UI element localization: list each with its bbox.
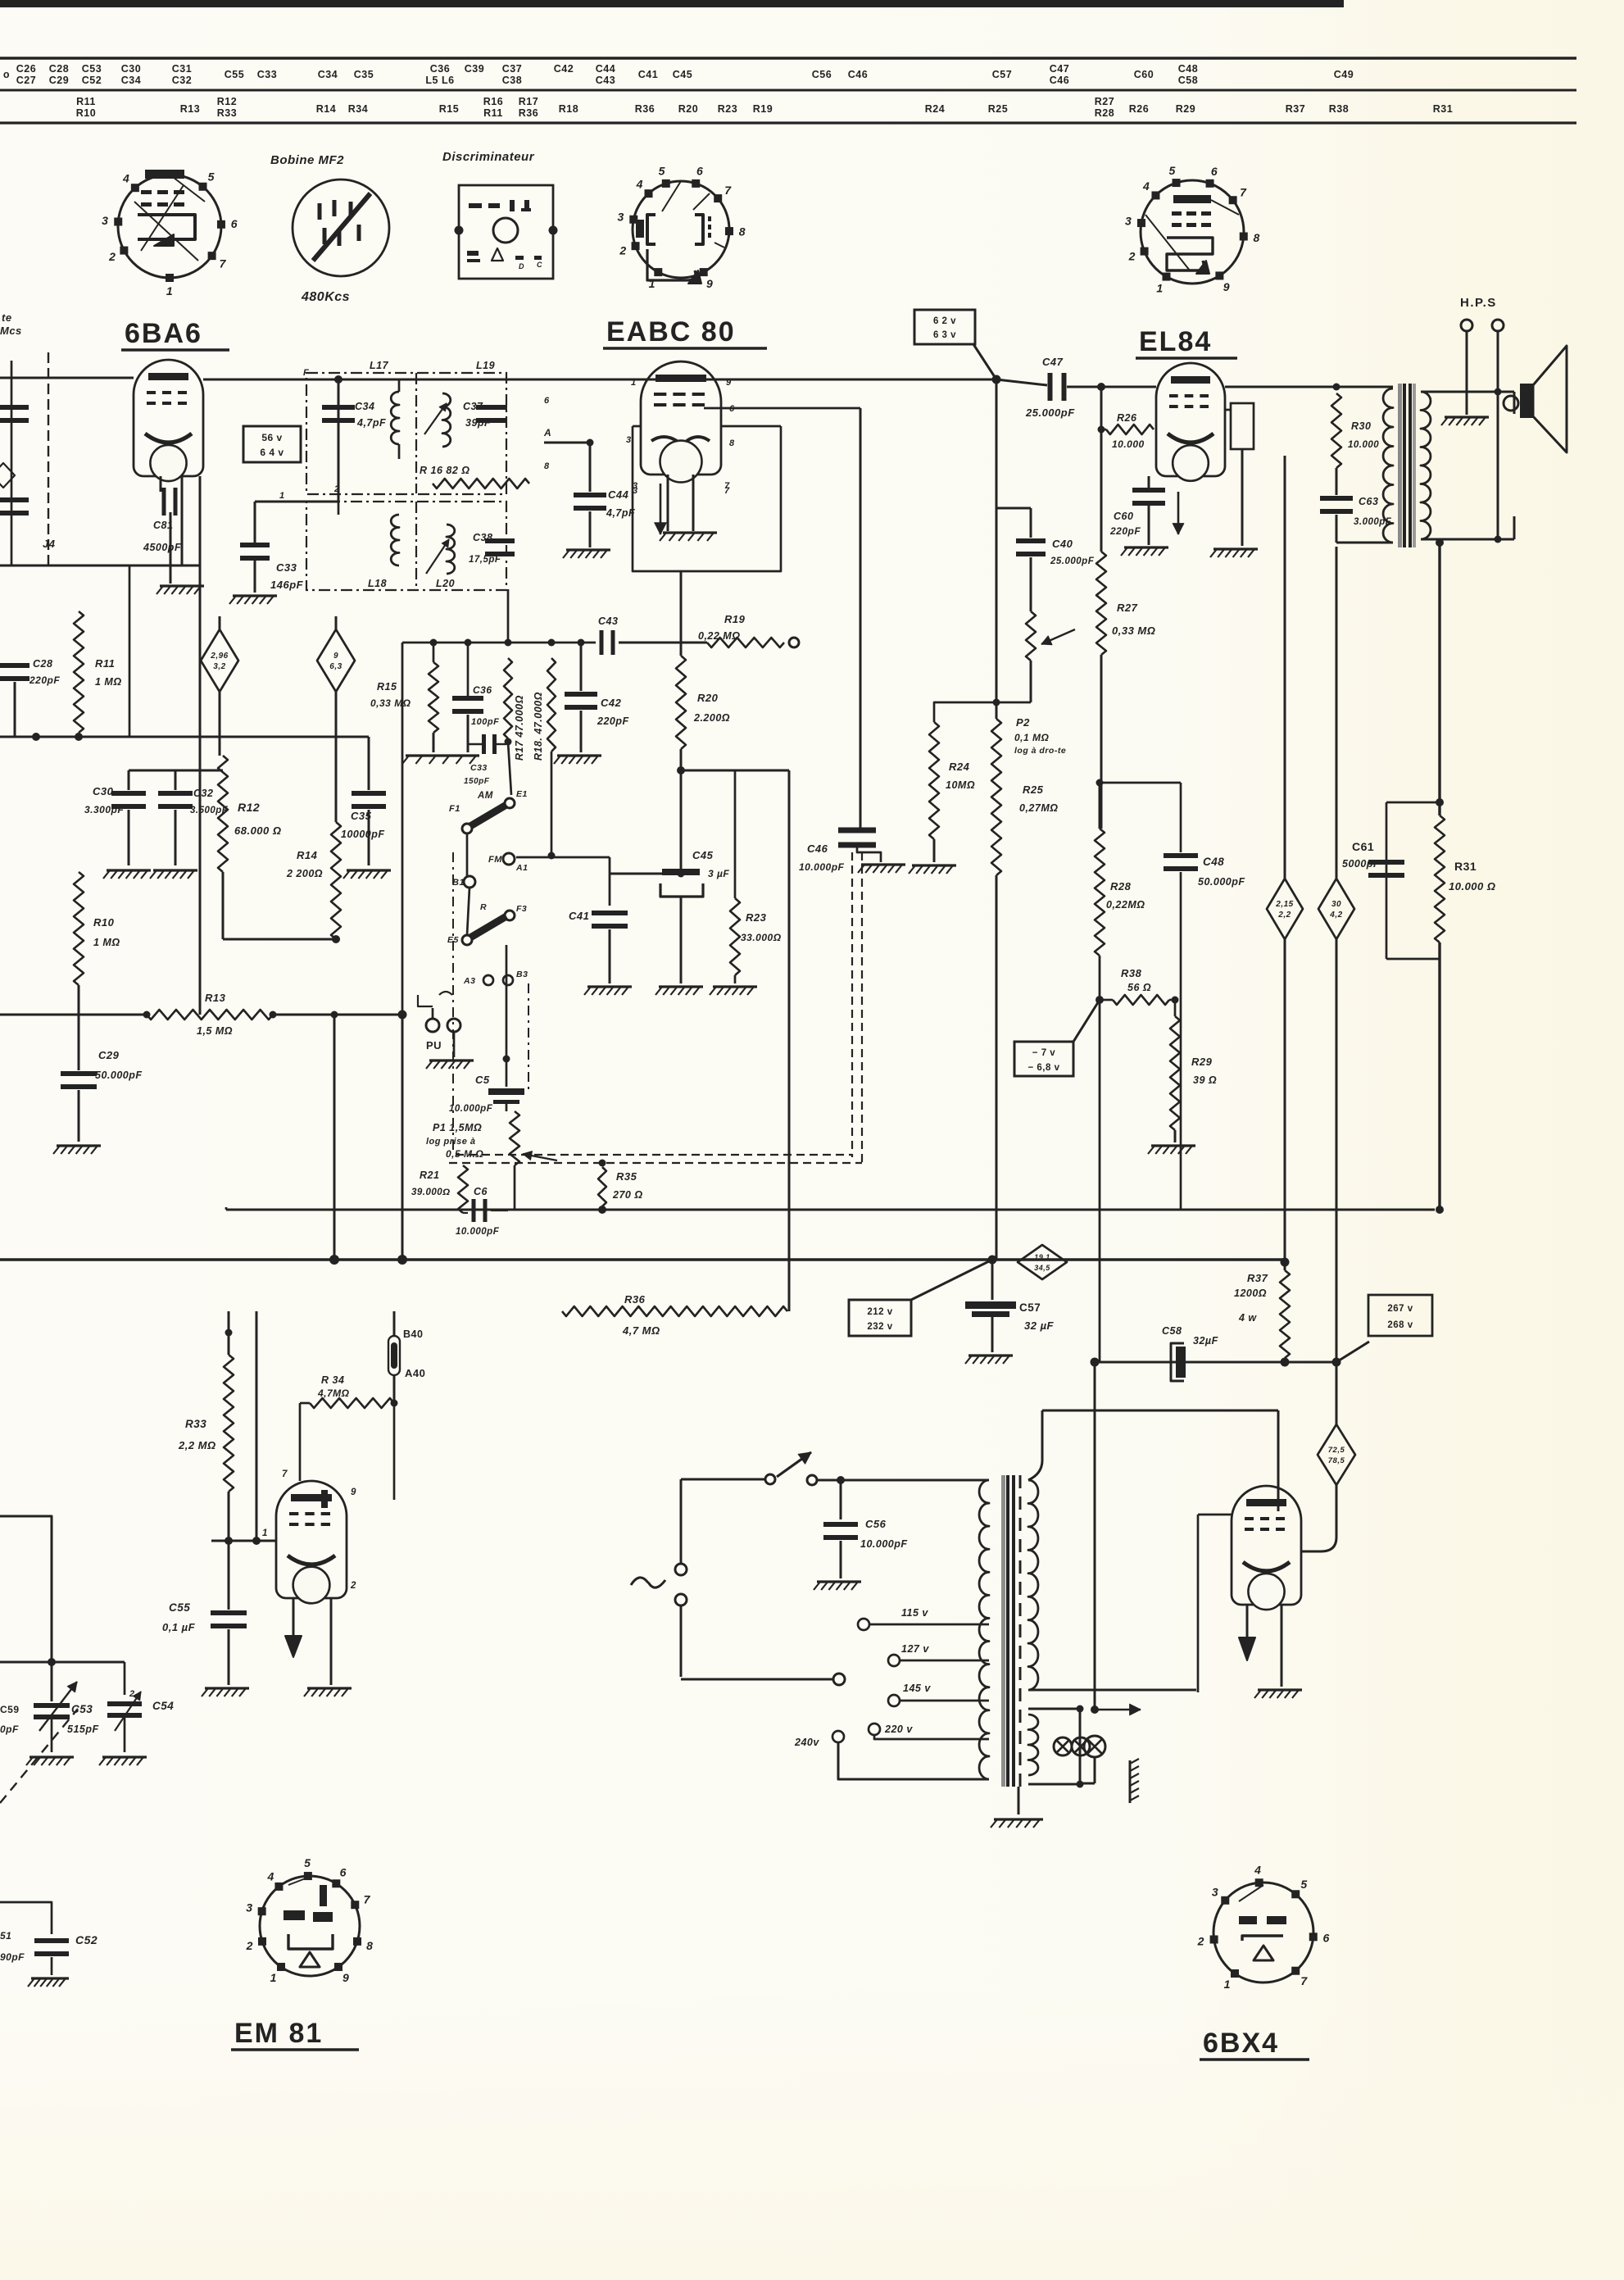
svg-text:4,7pF: 4,7pF xyxy=(606,507,635,519)
svg-text:FM: FM xyxy=(488,855,502,865)
svg-text:R36: R36 xyxy=(519,107,538,119)
svg-text:127 v: 127 v xyxy=(901,1643,929,1655)
svg-text:C28: C28 xyxy=(33,658,52,670)
svg-text:C45: C45 xyxy=(673,69,692,80)
svg-text:2: 2 xyxy=(108,250,116,263)
svg-text:R33: R33 xyxy=(217,107,237,119)
svg-text:R24: R24 xyxy=(925,103,945,115)
svg-text:A1: A1 xyxy=(515,863,528,873)
svg-text:R11: R11 xyxy=(483,107,503,119)
svg-text:C35: C35 xyxy=(354,69,374,80)
svg-text:F1: F1 xyxy=(449,804,460,814)
svg-text:39pF: 39pF xyxy=(465,417,491,429)
svg-text:4: 4 xyxy=(1142,179,1150,193)
svg-text:10.000: 10.000 xyxy=(1112,438,1145,450)
svg-text:1: 1 xyxy=(279,491,285,501)
svg-text:C5: C5 xyxy=(475,1074,490,1086)
svg-text:6: 6 xyxy=(1211,165,1218,178)
svg-text:2: 2 xyxy=(333,484,340,494)
svg-text:F3: F3 xyxy=(516,904,527,914)
svg-text:R 16 82 Ω: R 16 82 Ω xyxy=(420,465,470,476)
svg-text:C37: C37 xyxy=(502,63,522,75)
svg-text:3: 3 xyxy=(1125,214,1132,227)
svg-text:R28: R28 xyxy=(1110,880,1132,892)
svg-text:C37: C37 xyxy=(463,401,483,412)
svg-text:C55: C55 xyxy=(169,1601,190,1614)
svg-text:10.000pF: 10.000pF xyxy=(799,861,845,873)
svg-text:0,33 MΩ: 0,33 MΩ xyxy=(1112,625,1155,637)
svg-text:C36: C36 xyxy=(473,684,492,696)
svg-text:0,22MΩ: 0,22MΩ xyxy=(1106,899,1145,911)
svg-text:220pF: 220pF xyxy=(1109,525,1141,537)
svg-text:R23: R23 xyxy=(718,103,737,115)
svg-text:C45: C45 xyxy=(692,849,714,861)
svg-text:H.P.S: H.P.S xyxy=(1460,296,1497,310)
svg-text:R23: R23 xyxy=(746,911,767,924)
svg-text:R: R xyxy=(480,902,487,912)
svg-text:C57: C57 xyxy=(1019,1301,1041,1314)
svg-text:9: 9 xyxy=(333,652,338,661)
svg-text:150pF: 150pF xyxy=(464,777,490,786)
svg-text:1: 1 xyxy=(270,1971,277,1984)
svg-text:5: 5 xyxy=(304,1856,311,1869)
svg-text:72,5: 72,5 xyxy=(1328,1446,1345,1455)
svg-text:3: 3 xyxy=(617,210,624,223)
svg-text:145 v: 145 v xyxy=(903,1683,931,1694)
svg-text:3: 3 xyxy=(102,214,108,227)
svg-text:E1: E1 xyxy=(516,789,528,799)
svg-text:5: 5 xyxy=(1300,1878,1307,1891)
svg-text:480Kcs: 480Kcs xyxy=(301,290,350,304)
svg-text:267 v: 267 v xyxy=(1387,1304,1413,1314)
svg-text:Bobine MF2: Bobine MF2 xyxy=(270,153,344,167)
svg-text:AM: AM xyxy=(477,791,493,801)
svg-text:39.000Ω: 39.000Ω xyxy=(411,1188,451,1197)
svg-text:220pF: 220pF xyxy=(29,674,60,686)
svg-text:5000pF: 5000pF xyxy=(1342,858,1380,870)
svg-text:C43: C43 xyxy=(598,615,618,627)
svg-text:32 µF: 32 µF xyxy=(1024,1319,1055,1332)
svg-text:C29: C29 xyxy=(49,75,69,86)
svg-text:A: A xyxy=(543,427,551,438)
svg-text:6: 6 xyxy=(340,1866,347,1879)
svg-text:B40: B40 xyxy=(403,1328,423,1340)
svg-text:R20: R20 xyxy=(678,103,698,115)
svg-text:50.000pF: 50.000pF xyxy=(95,1070,143,1081)
svg-text:3: 3 xyxy=(1212,1886,1218,1899)
svg-text:A3: A3 xyxy=(463,976,475,986)
svg-text:R28: R28 xyxy=(1095,107,1114,119)
svg-text:C44: C44 xyxy=(596,63,615,75)
svg-text:C30: C30 xyxy=(93,785,114,797)
svg-text:R24: R24 xyxy=(949,761,970,773)
svg-text:R29: R29 xyxy=(1191,1056,1213,1068)
svg-text:4: 4 xyxy=(266,1869,274,1883)
svg-text:50.000pF: 50.000pF xyxy=(1198,876,1245,888)
svg-text:C54: C54 xyxy=(152,1700,174,1712)
svg-text:6 3 v: 6 3 v xyxy=(933,330,956,340)
svg-text:C59: C59 xyxy=(0,1704,20,1715)
svg-text:C33: C33 xyxy=(257,69,277,80)
svg-text:C34: C34 xyxy=(318,69,338,80)
svg-text:C57: C57 xyxy=(992,69,1012,80)
svg-text:6BA6: 6BA6 xyxy=(125,318,202,349)
svg-text:EABC 80: EABC 80 xyxy=(606,316,736,347)
svg-text:Mcs: Mcs xyxy=(0,325,22,337)
svg-text:2: 2 xyxy=(1128,250,1136,263)
svg-text:C60: C60 xyxy=(1134,69,1154,80)
svg-text:3,2: 3,2 xyxy=(213,662,225,671)
svg-text:R16: R16 xyxy=(483,96,503,107)
svg-text:0,33 MΩ: 0,33 MΩ xyxy=(370,697,411,709)
svg-text:C58: C58 xyxy=(1178,75,1198,86)
svg-text:R31: R31 xyxy=(1433,103,1453,115)
svg-text:2 200Ω: 2 200Ω xyxy=(286,868,323,879)
svg-text:C49: C49 xyxy=(1334,69,1354,80)
svg-text:R27: R27 xyxy=(1117,602,1138,614)
svg-text:8: 8 xyxy=(544,461,550,471)
svg-text:B3: B3 xyxy=(516,970,528,979)
svg-text:te: te xyxy=(2,311,12,324)
svg-text:R21: R21 xyxy=(420,1170,439,1181)
svg-text:1 MΩ: 1 MΩ xyxy=(95,676,122,688)
svg-text:R10: R10 xyxy=(93,916,115,929)
svg-text:R33: R33 xyxy=(185,1418,206,1430)
svg-text:68.000 Ω: 68.000 Ω xyxy=(234,824,282,837)
svg-text:P1 1,5MΩ: P1 1,5MΩ xyxy=(433,1122,482,1133)
svg-text:6: 6 xyxy=(1323,1932,1330,1945)
svg-text:2,96: 2,96 xyxy=(210,652,228,661)
svg-text:EL84: EL84 xyxy=(1139,326,1212,357)
svg-text:C: C xyxy=(537,261,542,269)
svg-text:R12: R12 xyxy=(217,96,237,107)
svg-text:4: 4 xyxy=(636,177,643,190)
svg-text:9: 9 xyxy=(342,1971,349,1984)
svg-text:R36: R36 xyxy=(635,103,655,115)
svg-text:9: 9 xyxy=(726,378,732,388)
svg-text:A40: A40 xyxy=(405,1367,425,1379)
svg-text:C42: C42 xyxy=(554,63,574,75)
svg-text:R38: R38 xyxy=(1329,103,1349,115)
svg-text:R14: R14 xyxy=(297,849,318,861)
svg-text:R25: R25 xyxy=(988,103,1008,115)
svg-text:4 w: 4 w xyxy=(1238,1312,1257,1324)
svg-text:9: 9 xyxy=(1223,280,1230,293)
svg-text:C58: C58 xyxy=(1162,1325,1182,1337)
svg-text:1 MΩ: 1 MΩ xyxy=(93,937,120,948)
svg-text:R17 47.000Ω: R17 47.000Ω xyxy=(514,695,525,761)
svg-text:R15: R15 xyxy=(439,103,459,115)
svg-text:C27: C27 xyxy=(16,75,36,86)
svg-text:L18: L18 xyxy=(368,578,387,589)
svg-text:C48: C48 xyxy=(1203,856,1224,868)
svg-text:3 µF: 3 µF xyxy=(708,868,729,879)
svg-text:6,3: 6,3 xyxy=(329,662,342,671)
svg-text:8: 8 xyxy=(366,1939,373,1952)
svg-text:o: o xyxy=(3,69,10,80)
svg-text:6 2 v: 6 2 v xyxy=(933,316,956,326)
svg-text:10MΩ: 10MΩ xyxy=(946,779,975,791)
svg-text:7: 7 xyxy=(1300,1974,1308,1987)
svg-text:4: 4 xyxy=(122,171,129,184)
svg-text:R19: R19 xyxy=(753,103,773,115)
svg-text:5: 5 xyxy=(208,170,215,183)
svg-text:C30: C30 xyxy=(121,63,141,75)
svg-text:4: 4 xyxy=(1254,1863,1261,1876)
svg-text:R11: R11 xyxy=(76,96,96,107)
svg-text:C46: C46 xyxy=(1050,75,1069,86)
svg-text:C41: C41 xyxy=(569,910,589,922)
svg-text:L17: L17 xyxy=(370,360,389,371)
svg-text:0,1 µF: 0,1 µF xyxy=(162,1621,196,1633)
svg-text:C52: C52 xyxy=(75,1933,98,1946)
svg-text:0,27MΩ: 0,27MΩ xyxy=(1019,802,1059,814)
svg-text:C40: C40 xyxy=(1052,538,1073,550)
svg-text:D: D xyxy=(519,262,524,270)
svg-text:C63: C63 xyxy=(1359,496,1378,507)
svg-text:R17: R17 xyxy=(519,96,538,107)
svg-text:C81: C81 xyxy=(153,520,173,531)
svg-text:1: 1 xyxy=(1224,1978,1231,1991)
svg-text:33.000Ω: 33.000Ω xyxy=(741,932,782,943)
svg-text:3: 3 xyxy=(246,1901,252,1914)
svg-text:− 7 v: − 7 v xyxy=(1032,1048,1056,1058)
svg-text:C34: C34 xyxy=(121,75,141,86)
svg-text:8: 8 xyxy=(739,225,746,238)
svg-text:PU: PU xyxy=(426,1039,442,1051)
svg-text:3.300pF: 3.300pF xyxy=(84,804,124,815)
svg-text:L19: L19 xyxy=(476,360,495,371)
svg-text:L20: L20 xyxy=(436,578,455,589)
svg-text:C47: C47 xyxy=(1042,356,1064,368)
svg-text:5: 5 xyxy=(1168,164,1175,177)
svg-text:R30: R30 xyxy=(1351,420,1371,432)
svg-text:C55: C55 xyxy=(225,69,244,80)
svg-text:C32: C32 xyxy=(193,788,213,799)
svg-text:39 Ω: 39 Ω xyxy=(1193,1074,1217,1086)
svg-text:C60: C60 xyxy=(1114,511,1133,522)
svg-text:268 v: 268 v xyxy=(1387,1320,1413,1330)
svg-text:7: 7 xyxy=(724,481,730,491)
svg-text:4,7pF: 4,7pF xyxy=(356,417,386,429)
svg-text:10.000: 10.000 xyxy=(1348,440,1379,450)
svg-text:C44: C44 xyxy=(608,488,629,501)
svg-text:515pF: 515pF xyxy=(67,1724,99,1735)
svg-text:30: 30 xyxy=(1331,900,1341,909)
svg-text:− 6,8 v: − 6,8 v xyxy=(1028,1063,1060,1073)
svg-text:220 v: 220 v xyxy=(884,1724,913,1735)
svg-text:9: 9 xyxy=(351,1487,356,1497)
svg-text:0,22 MΩ: 0,22 MΩ xyxy=(698,630,740,642)
svg-text:10.000pF: 10.000pF xyxy=(860,1538,908,1550)
svg-text:2,2: 2,2 xyxy=(1277,911,1291,920)
svg-text:10000pF: 10000pF xyxy=(341,829,385,840)
svg-text:4,7MΩ: 4,7MΩ xyxy=(317,1388,350,1399)
svg-text:8: 8 xyxy=(1254,231,1260,244)
svg-text:R19: R19 xyxy=(724,613,746,625)
svg-text:270 Ω: 270 Ω xyxy=(612,1189,643,1201)
svg-text:100pF: 100pF xyxy=(471,717,499,727)
svg-text:R35: R35 xyxy=(616,1170,637,1183)
svg-text:R38: R38 xyxy=(1121,967,1142,979)
svg-text:146pF: 146pF xyxy=(270,579,304,591)
svg-text:240v: 240v xyxy=(794,1737,819,1748)
svg-text:10.000pF: 10.000pF xyxy=(449,1104,493,1114)
svg-text:10.000 Ω: 10.000 Ω xyxy=(1449,880,1496,892)
svg-text:R14: R14 xyxy=(316,103,336,115)
svg-text:R34: R34 xyxy=(348,103,368,115)
svg-text:90pF: 90pF xyxy=(0,1951,25,1963)
svg-text:R36: R36 xyxy=(624,1293,646,1306)
svg-text:7: 7 xyxy=(364,1892,371,1905)
svg-text:1: 1 xyxy=(166,284,173,297)
svg-text:R20: R20 xyxy=(697,692,719,704)
svg-text:C36: C36 xyxy=(430,63,450,75)
svg-text:232 v: 232 v xyxy=(867,1322,892,1332)
svg-text:6BX4: 6BX4 xyxy=(1203,2028,1279,2059)
svg-text:log prise à: log prise à xyxy=(426,1137,476,1147)
svg-text:4,2: 4,2 xyxy=(1329,911,1342,920)
svg-text:7: 7 xyxy=(282,1469,288,1479)
svg-text:R15: R15 xyxy=(377,681,397,693)
svg-text:2: 2 xyxy=(350,1581,356,1591)
svg-text:C39: C39 xyxy=(465,63,484,75)
svg-text:C48: C48 xyxy=(1178,63,1198,75)
svg-text:6: 6 xyxy=(544,396,550,406)
svg-text:R13: R13 xyxy=(180,103,200,115)
svg-text:0pF: 0pF xyxy=(0,1724,19,1735)
svg-text:J4: J4 xyxy=(43,538,56,550)
svg-text:2,2 MΩ: 2,2 MΩ xyxy=(178,1439,216,1451)
svg-text:log à dro-te: log à dro-te xyxy=(1014,746,1066,756)
svg-text:1,5 MΩ: 1,5 MΩ xyxy=(197,1025,233,1037)
svg-text:R29: R29 xyxy=(1176,103,1195,115)
svg-text:9: 9 xyxy=(706,277,713,290)
svg-text:R25: R25 xyxy=(1023,783,1044,796)
svg-text:R11: R11 xyxy=(95,657,115,670)
svg-text:C56: C56 xyxy=(812,69,832,80)
svg-text:R26: R26 xyxy=(1117,412,1137,424)
svg-text:10.000pF: 10.000pF xyxy=(456,1227,500,1237)
svg-text:220pF: 220pF xyxy=(597,715,629,727)
svg-text:C46: C46 xyxy=(848,69,868,80)
svg-text:C53: C53 xyxy=(82,63,102,75)
svg-text:C41: C41 xyxy=(638,69,658,80)
svg-text:R12: R12 xyxy=(238,801,260,814)
svg-text:EM 81: EM 81 xyxy=(234,2018,323,2049)
svg-text:C33: C33 xyxy=(276,561,297,574)
svg-text:C42: C42 xyxy=(601,697,622,709)
svg-text:32µF: 32µF xyxy=(1193,1335,1218,1347)
svg-text:R10: R10 xyxy=(76,107,96,119)
svg-text:C33: C33 xyxy=(470,763,488,773)
svg-text:3.500pF: 3.500pF xyxy=(190,806,229,815)
svg-text:2: 2 xyxy=(1197,1935,1204,1948)
svg-text:C38: C38 xyxy=(473,532,492,543)
svg-text:8: 8 xyxy=(729,438,735,448)
svg-text:C34: C34 xyxy=(355,401,374,412)
svg-text:C26: C26 xyxy=(16,63,36,75)
svg-text:56 v: 56 v xyxy=(261,432,282,443)
svg-text:6: 6 xyxy=(696,165,703,178)
svg-text:R18: R18 xyxy=(559,103,578,115)
svg-text:P2: P2 xyxy=(1016,716,1030,729)
svg-text:25.000pF: 25.000pF xyxy=(1050,556,1095,566)
svg-text:1: 1 xyxy=(262,1528,268,1538)
svg-text:C6: C6 xyxy=(474,1186,488,1197)
svg-text:19,1: 19,1 xyxy=(1034,1253,1050,1261)
svg-text:C28: C28 xyxy=(49,63,69,75)
svg-text:B1: B1 xyxy=(452,878,465,888)
svg-text:C29: C29 xyxy=(98,1049,120,1061)
svg-text:51: 51 xyxy=(0,1930,11,1942)
svg-text:115 v: 115 v xyxy=(901,1607,928,1619)
svg-text:4,7 MΩ: 4,7 MΩ xyxy=(622,1324,660,1337)
svg-text:25.000pF: 25.000pF xyxy=(1025,406,1075,419)
svg-text:1200Ω: 1200Ω xyxy=(1234,1288,1267,1299)
svg-text:2.200Ω: 2.200Ω xyxy=(693,712,730,724)
svg-text:C47: C47 xyxy=(1050,63,1069,75)
svg-text:1: 1 xyxy=(1156,281,1163,294)
svg-text:R26: R26 xyxy=(1129,103,1149,115)
svg-text:6 4 v: 6 4 v xyxy=(260,447,284,458)
svg-text:2: 2 xyxy=(246,1939,253,1952)
svg-text:C46: C46 xyxy=(807,843,828,855)
svg-text:3: 3 xyxy=(626,435,632,445)
svg-text:C56: C56 xyxy=(865,1518,887,1530)
svg-text:R18. 47.000Ω: R18. 47.000Ω xyxy=(533,692,544,761)
svg-text:R27: R27 xyxy=(1095,96,1114,107)
svg-text:212 v: 212 v xyxy=(867,1307,892,1317)
svg-text:E5: E5 xyxy=(447,935,459,945)
svg-text:17,5pF: 17,5pF xyxy=(469,555,501,565)
svg-text:0,1 MΩ: 0,1 MΩ xyxy=(1014,732,1050,743)
svg-text:7: 7 xyxy=(1240,185,1247,198)
svg-text:0,5 M.Ω: 0,5 M.Ω xyxy=(446,1148,483,1160)
svg-text:C43: C43 xyxy=(596,75,615,86)
svg-text:34,5: 34,5 xyxy=(1034,1264,1050,1272)
svg-text:1: 1 xyxy=(631,378,637,388)
svg-text:Discriminateur: Discriminateur xyxy=(442,150,535,164)
svg-text:R37: R37 xyxy=(1247,1272,1268,1284)
svg-text:7: 7 xyxy=(724,184,732,197)
svg-text:R31: R31 xyxy=(1454,860,1477,873)
svg-text:56 Ω: 56 Ω xyxy=(1127,982,1151,993)
svg-text:L5 L6: L5 L6 xyxy=(425,75,454,86)
svg-text:R 34: R 34 xyxy=(321,1374,344,1386)
svg-text:4500pF: 4500pF xyxy=(143,542,181,553)
svg-text:6: 6 xyxy=(231,217,238,230)
svg-text:2: 2 xyxy=(619,244,626,257)
svg-text:2,15: 2,15 xyxy=(1275,900,1293,909)
svg-text:R13: R13 xyxy=(205,992,226,1004)
svg-text:C32: C32 xyxy=(172,75,192,86)
svg-text:C38: C38 xyxy=(502,75,522,86)
svg-text:C61: C61 xyxy=(1352,840,1374,853)
svg-text:2: 2 xyxy=(129,1689,135,1699)
svg-text:5: 5 xyxy=(659,165,665,178)
svg-text:7: 7 xyxy=(220,257,227,270)
svg-text:R37: R37 xyxy=(1286,103,1305,115)
svg-text:78,5: 78,5 xyxy=(1328,1456,1345,1465)
svg-text:C31: C31 xyxy=(172,63,192,75)
svg-text:C52: C52 xyxy=(82,75,102,86)
